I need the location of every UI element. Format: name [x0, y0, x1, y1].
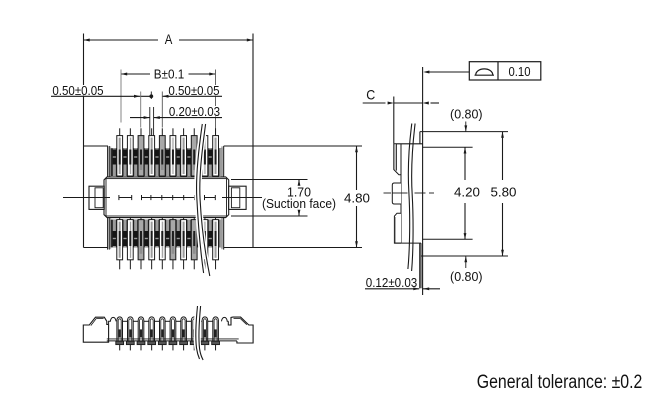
connector body outline (top view)	[104, 177, 229, 218]
side view: connector profile	[392, 97, 422, 244]
terminal pin 1 (front view)	[116, 317, 128, 350]
terminal pin 4 (bottom row)	[149, 215, 155, 270]
terminal pin 10 (top row)	[213, 128, 219, 181]
top view: mounting plate outline	[84, 34, 254, 248]
dimension 1.70 (suction face)	[231, 180, 336, 217]
bottom metal tab (side view)	[421, 239, 508, 256]
svg-text:0.12±0.03: 0.12±0.03	[366, 275, 418, 290]
terminal lead (side view)	[420, 243, 421, 288]
center line (side view)	[384, 192, 435, 194]
terminal pin 9 (front view)	[201, 317, 213, 350]
terminal pin 3 (top row)	[138, 128, 144, 181]
horizontal center line (top view)	[63, 197, 262, 199]
terminal pin 7 (bottom row)	[181, 215, 187, 270]
top metal tab (side view)	[420, 132, 508, 148]
svg-text:(0.80): (0.80)	[450, 106, 483, 121]
svg-text:4.20: 4.20	[454, 185, 480, 200]
front view: body outline	[83, 317, 253, 343]
dimension 4.20	[454, 147, 480, 239]
terminal pin 4 (front view)	[148, 317, 160, 351]
break line (top view)	[197, 124, 210, 276]
terminal pin 2 (bottom row)	[127, 215, 133, 270]
svg-text:4.80: 4.80	[344, 190, 370, 205]
svg-text:5.80: 5.80	[491, 185, 517, 200]
svg-text:(Suction face): (Suction face)	[262, 196, 336, 211]
front view: base bottom edge lines	[107, 339, 239, 341]
terminal pin 4 (top row)	[149, 128, 155, 181]
contact position ticks inside body	[119, 195, 215, 200]
svg-text:B±0.1: B±0.1	[154, 67, 185, 82]
terminal pin 9 (bottom row)	[202, 215, 208, 270]
terminal pin 5 (front view)	[158, 317, 170, 350]
terminal pin 5 (top row)	[159, 128, 165, 181]
dimension 0.12±0.03	[365, 275, 440, 290]
dimension C	[363, 86, 439, 104]
bottom pin row contact band	[108, 217, 224, 249]
svg-text:0.50±0.05: 0.50±0.05	[52, 83, 103, 98]
terminal pin 1 (top row)	[117, 128, 123, 181]
svg-text:0.10: 0.10	[509, 64, 531, 79]
front view: top edge with pin domes	[109, 317, 229, 324]
metal fitting tab (right)	[229, 186, 246, 209]
dimension B±0.1	[121, 67, 216, 135]
break line (front view)	[196, 306, 203, 360]
dimension 0.50±0.05 (left)	[51, 83, 153, 128]
terminal pin 10 (bottom row)	[213, 215, 219, 270]
terminal pin 6 (front view)	[169, 317, 181, 351]
top pin row contact band	[108, 146, 224, 178]
svg-text:(0.80): (0.80)	[450, 269, 483, 284]
terminal pin 6 (top row)	[170, 128, 176, 181]
terminal pin 7 (top row)	[181, 128, 187, 181]
terminal pin 5 (bottom row)	[159, 215, 165, 270]
terminal pin 1 (bottom row)	[117, 215, 123, 270]
dimension 0.50±0.05 (right)	[162, 83, 222, 128]
dimension A	[84, 31, 254, 47]
dimension 5.80	[491, 132, 517, 256]
terminal pin 8 (bottom row)	[191, 215, 197, 270]
terminal pin 2 (top row)	[127, 128, 133, 181]
terminal pin 3 (front view)	[137, 317, 149, 350]
dimension 4.80	[253, 146, 370, 248]
terminal pin 8 (top row)	[191, 128, 197, 181]
terminal pin 9 (top row)	[202, 128, 208, 181]
terminal pin 2 (front view)	[126, 317, 138, 351]
flatness feature control frame	[423, 62, 541, 80]
dimension (0.80) bottom	[450, 256, 483, 284]
metal fitting tab (left)	[89, 186, 104, 209]
svg-text:0.50±0.05: 0.50±0.05	[168, 83, 219, 98]
svg-text:A: A	[165, 31, 173, 47]
terminal pin 8 (front view)	[190, 317, 202, 351]
svg-text:0.20±0.03: 0.20±0.03	[169, 104, 220, 119]
terminal pin 6 (bottom row)	[170, 215, 176, 270]
svg-text:General tolerance: ±0.2: General tolerance: ±0.2	[477, 372, 643, 393]
terminal pin 7 (front view)	[180, 317, 192, 350]
break line (side view)	[408, 124, 415, 272]
terminal pin 3 (bottom row)	[138, 215, 144, 270]
terminal pin 10 (front view)	[212, 317, 220, 350]
svg-text:C: C	[366, 86, 375, 102]
side view: seating plane line	[422, 67, 424, 295]
dimension (0.80) top	[450, 106, 483, 131]
dimension 0.20±0.03	[130, 104, 222, 135]
